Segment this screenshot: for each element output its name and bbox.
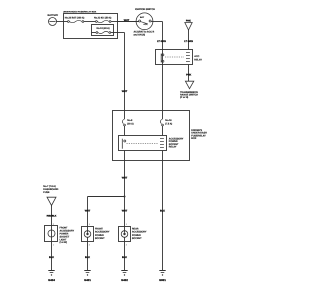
- off-page arrow to transmission range switch: [180, 81, 198, 99]
- fuse No.23 IG1 (50 A): [94, 16, 118, 22]
- ground G402: [121, 271, 128, 283]
- wire BLK socket 2 to ground: [124, 242, 126, 271]
- wire relay coil through box bottom: [162, 151, 164, 161]
- svg-text:FUSE: FUSE: [43, 191, 50, 194]
- svg-text:(20 A): (20 A): [127, 122, 133, 125]
- under-hood fuse/relay box: [63, 11, 118, 39]
- svg-text:(7.5 A): (7.5 A): [165, 122, 172, 125]
- svg-text:G404: G404: [48, 278, 55, 282]
- sub-box for fuse No.10: [92, 25, 114, 36]
- svg-text:No.23 IG1 (50 A): No.23 IG1 (50 A): [94, 16, 112, 19]
- left column: from fuse No.7: [43, 185, 58, 225]
- svg-text:WHT: WHT: [122, 177, 128, 180]
- wire BLK light to ground: [51, 242, 53, 271]
- accessory relay (top): [156, 50, 203, 65]
- accessory power socket relay: [119, 136, 184, 151]
- svg-text:No.22 BAT (100 A): No.22 BAT (100 A): [65, 16, 85, 19]
- off-page arrow from fuse, PNK: [185, 23, 192, 50]
- svg-text:SOCKET: SOCKET: [132, 237, 142, 240]
- wire color labels: [47, 19, 194, 259]
- svg-text:PNK: PNK: [186, 73, 191, 76]
- svg-text:SOCKET: SOCKET: [95, 237, 105, 240]
- svg-text:BOX: BOX: [191, 137, 196, 140]
- svg-text:and ON (II): and ON (II): [134, 34, 146, 37]
- svg-text:LT GRN: LT GRN: [157, 40, 166, 43]
- fuse No.10 (40 A): [92, 27, 114, 33]
- wire BLK socket 1 to ground: [87, 242, 89, 271]
- svg-text:(P or N): (P or N): [180, 96, 188, 99]
- svg-text:BATTERY: BATTERY: [47, 14, 58, 17]
- wire battery to fuse box: [57, 21, 64, 23]
- svg-text:G501: G501: [159, 278, 166, 282]
- svg-text:LT GRN: LT GRN: [184, 40, 193, 43]
- rear accessory power socket: [119, 227, 147, 242]
- svg-text:WHT: WHT: [122, 90, 128, 93]
- svg-text:RELAY: RELAY: [169, 146, 177, 149]
- svg-text:G401: G401: [84, 278, 91, 282]
- fuse No.8 (20 A): [122, 111, 133, 136]
- wire ignition switch ACC right then down, LT GRN: [151, 22, 162, 111]
- pin numbers: [53, 223, 128, 247]
- front accessory power socket light: [45, 226, 75, 245]
- svg-text:BLK: BLK: [85, 256, 90, 259]
- fuse No.22 BAT (100 A): [64, 16, 96, 22]
- wire BLK from relay coil down to ground: [162, 161, 164, 271]
- svg-text:(1.4 W): (1.4 W): [60, 241, 68, 244]
- ground G401: [84, 271, 91, 283]
- battery B1: [47, 14, 58, 26]
- front accessory power socket: [82, 227, 110, 242]
- wire WHT down from box with branch node: [88, 161, 126, 227]
- ground G501: [159, 271, 166, 283]
- svg-text:BAT: BAT: [140, 16, 145, 19]
- fuse No.16 (7.5 A): [160, 111, 172, 136]
- svg-text:BLK: BLK: [49, 256, 54, 259]
- svg-text:BLK: BLK: [160, 210, 165, 213]
- svg-text:WHT: WHT: [124, 19, 130, 22]
- svg-text:WHT: WHT: [85, 210, 91, 213]
- ground G404: [48, 271, 55, 283]
- svg-text:RELAY: RELAY: [194, 58, 202, 61]
- svg-text:G402: G402: [121, 278, 128, 282]
- svg-text:WHT: WHT: [122, 210, 128, 213]
- ignition switch: [134, 8, 156, 36]
- svg-text:No.10 (40 A): No.10 (40 A): [97, 27, 110, 30]
- driver's under-dash fuse/relay box: [113, 111, 208, 161]
- svg-text:RED/BLK: RED/BLK: [47, 215, 57, 218]
- wire relay coil to arrow, PNK: [188, 65, 190, 82]
- svg-text:BLK: BLK: [122, 256, 127, 259]
- wire fuse No.10 right then down to under-dash box: [114, 33, 125, 111]
- svg-text:IGNITION SWITCH: IGNITION SWITCH: [135, 8, 155, 11]
- svg-text:PNK: PNK: [186, 20, 191, 23]
- wire relay contact through box bottom: [124, 151, 126, 161]
- wire fuse box to ignition switch, WHT: [118, 21, 139, 23]
